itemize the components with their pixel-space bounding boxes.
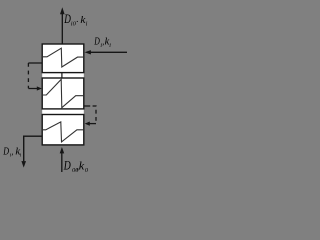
label D_i, k_i (right input)	[93, 36, 111, 49]
bottom input arrow (up into U3)	[60, 147, 64, 172]
svg-text:.: .	[76, 14, 78, 24]
label D_i0, k_i (top)	[63, 12, 87, 27]
svg-text:i: i	[86, 20, 88, 27]
svg-text:D: D	[63, 12, 70, 26]
right feedback wire U2 to U3 (dashed)	[84, 106, 96, 126]
svg-text:,: ,	[11, 146, 13, 156]
svg-text:D: D	[2, 146, 9, 158]
sawtooth waveform in U2	[42, 79, 84, 107]
sawtooth waveform in U1	[42, 48, 84, 67]
sawtooth waveform in U3	[42, 122, 84, 142]
accumulator stage box U3	[42, 115, 84, 145]
label D_00, k_0 (bottom)	[63, 158, 89, 175]
top output arrow	[60, 7, 65, 44]
top-right input arrow	[85, 50, 127, 54]
accumulator stage box U1	[42, 44, 84, 73]
left feedback wire U1 to U2 (dashed)	[28, 63, 42, 91]
white stack backing	[42, 44, 84, 145]
wire connector U1-U2	[61, 73, 63, 78]
svg-text:D: D	[93, 36, 99, 48]
accumulator stage box U2	[42, 78, 84, 109]
bottom-left output wire with down arrow	[21, 136, 42, 167]
label D_i, k_i (left output)	[2, 146, 21, 159]
svg-text:D: D	[63, 158, 71, 173]
